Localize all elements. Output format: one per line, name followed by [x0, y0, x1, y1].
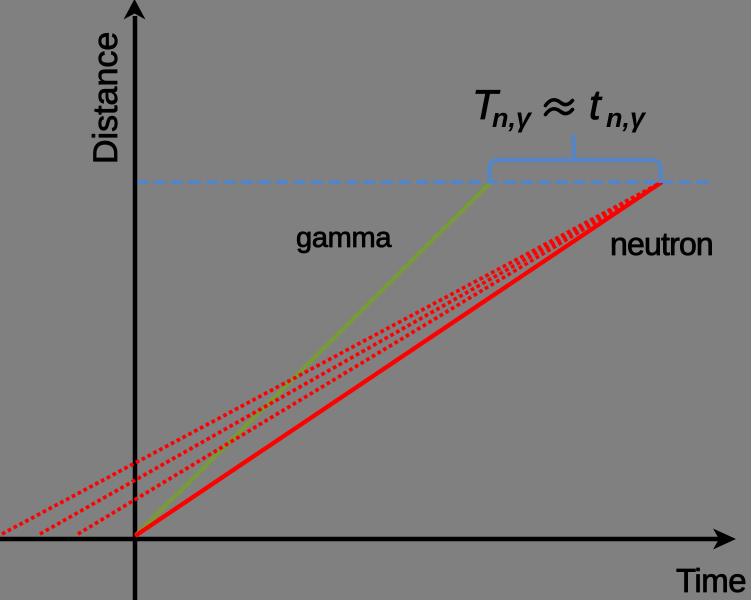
svg-text:neutron: neutron [610, 226, 713, 262]
svg-text:n,γ: n,γ [606, 103, 647, 133]
svg-text:gamma: gamma [296, 222, 392, 254]
svg-text:Distance: Distance [87, 32, 125, 164]
svg-text:Time: Time [676, 562, 746, 599]
svg-text:n,γ: n,γ [492, 103, 533, 133]
